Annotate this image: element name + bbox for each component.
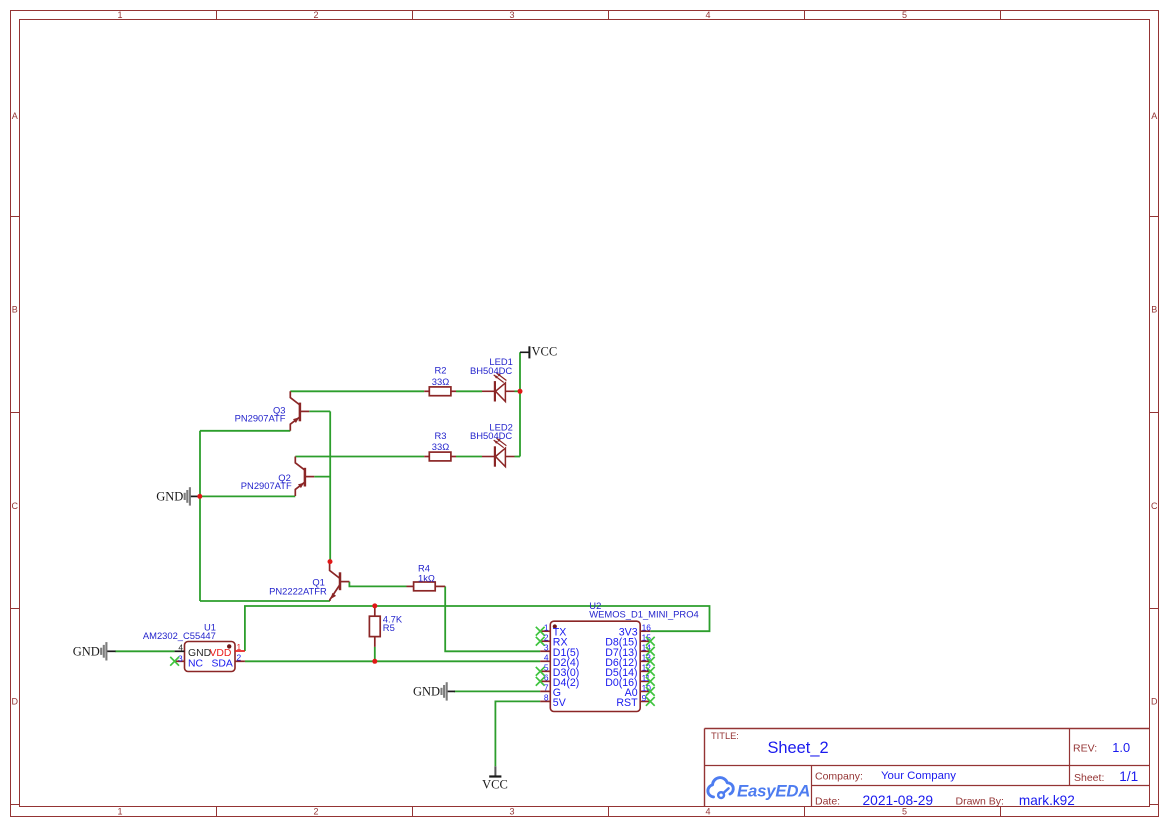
U1 pin1 polarity dot — [227, 644, 231, 648]
svg-text:TITLE:: TITLE: — [711, 731, 739, 741]
svg-text:C: C — [11, 501, 18, 511]
svg-text:R5: R5 — [383, 622, 395, 633]
U2 pin 13 no-connect X — [646, 657, 655, 666]
U2 pin 3 D1(5) stub — [540, 650, 550, 652]
svg-text:3: 3 — [544, 642, 549, 652]
LED LED1 — [482, 390, 495, 392]
wire base bus vertical Q3/Q2 to Q1 collector — [329, 411, 331, 561]
ground flag GND1 at transistor rail — [189, 487, 191, 505]
svg-text:A: A — [12, 111, 18, 121]
U2 pin 16 3V3 stub — [640, 630, 650, 632]
svg-text:4: 4 — [705, 806, 710, 816]
U1 pin 3 no-connect X — [170, 657, 179, 666]
svg-text:D: D — [1151, 697, 1158, 707]
U1 pin 3 NC stub — [175, 660, 185, 662]
junction GND rail — [197, 494, 202, 499]
svg-text:Drawn By:: Drawn By: — [956, 796, 1004, 808]
svg-text:SDA: SDA — [212, 658, 233, 669]
U2 pin 10 A0 stub — [640, 690, 650, 692]
svg-text:NC: NC — [188, 658, 204, 669]
U2 pin 13 D6(12) stub — [640, 660, 650, 662]
svg-text:1kΩ: 1kΩ — [418, 573, 435, 584]
transistor Q1 NPN — [339, 572, 342, 590]
EasyEDA logo — [708, 778, 733, 798]
svg-text:8: 8 — [544, 693, 549, 703]
svg-text:VCC: VCC — [482, 778, 508, 792]
wire LED1 to VCC node — [515, 390, 521, 392]
svg-text:PN2907ATF: PN2907ATF — [235, 412, 286, 423]
svg-text:33Ω: 33Ω — [432, 441, 449, 452]
svg-text:D: D — [11, 697, 18, 707]
wire Q3 collector to R2 — [290, 390, 424, 392]
svg-text:Date:: Date: — [815, 796, 840, 808]
U2 pin 5 D3(0) stub — [540, 670, 550, 672]
svg-text:mark.k92: mark.k92 — [1019, 793, 1075, 808]
svg-text:Company:: Company: — [815, 771, 863, 783]
U2 pin 1 no-connect X — [536, 627, 545, 636]
wire Q3 emitter to GND rail — [200, 430, 290, 432]
wire GND to U2 pin7 G — [454, 690, 540, 692]
svg-text:Sheet_2: Sheet_2 — [768, 739, 829, 757]
U2 pin 11 no-connect X — [646, 677, 655, 686]
resistor R5 vertical — [374, 606, 376, 616]
junction LED1/VCC — [518, 389, 523, 394]
U2 pin 15 no-connect X — [646, 637, 655, 646]
junction R5 top / VDD rail — [372, 603, 377, 608]
wire Q2 collector to R3 — [295, 456, 424, 458]
svg-text:R2: R2 — [435, 365, 447, 376]
U1 pin 1 VDD stub — [235, 650, 245, 652]
wire VDD net: U1 pin1 up to 3V3/R5 rail — [245, 606, 710, 651]
wire R5 bottom to SDA net — [374, 647, 376, 661]
resistor R3 — [424, 456, 429, 458]
wire VCC vertical — [519, 352, 521, 456]
U2 pin 7 G stub — [540, 690, 550, 692]
svg-text:R3: R3 — [435, 430, 447, 441]
wire LED2 to VCC node — [515, 456, 521, 458]
wire R2 to LED1 — [456, 390, 482, 392]
VCC net flag top — [520, 351, 529, 353]
wire Q2 base to bus — [314, 476, 330, 478]
svg-text:PN2222ATFR: PN2222ATFR — [269, 585, 327, 596]
IC U1 AM2302 body — [185, 642, 236, 672]
wire Q2 emitter to GND rail — [200, 495, 295, 497]
resistor R2 — [424, 390, 429, 392]
svg-text:RST: RST — [616, 697, 638, 709]
U2 pin 14 D7(13) stub — [640, 650, 650, 652]
svg-text:BH504DC: BH504DC — [470, 430, 512, 441]
U2 pin 12 no-connect X — [646, 667, 655, 676]
U1 pin 2 SDA stub — [235, 660, 245, 662]
svg-text:Sheet:: Sheet: — [1074, 772, 1104, 784]
LED LED2 — [482, 456, 495, 458]
svg-text:1: 1 — [237, 642, 242, 652]
svg-text:2: 2 — [237, 653, 242, 663]
U1 pin 4 GND stub — [175, 650, 185, 652]
wire Q3 base to bus — [309, 410, 330, 412]
svg-text:WEMOS_D1_MINI_PRO4: WEMOS_D1_MINI_PRO4 — [589, 609, 698, 620]
svg-text:EasyEDA: EasyEDA — [737, 781, 810, 800]
svg-text:4: 4 — [544, 652, 549, 662]
U2 pin 8 5V stub — [540, 700, 550, 702]
svg-text:2: 2 — [313, 10, 318, 20]
U2 pin 6 D4(2) stub — [540, 680, 550, 682]
U2 pin1 dot — [553, 624, 557, 628]
svg-text:C: C — [1151, 501, 1158, 511]
wire R3 to LED2 — [456, 456, 482, 458]
svg-text:B: B — [12, 305, 18, 315]
svg-text:5V: 5V — [553, 697, 567, 709]
wire GND to U1 pin4 — [115, 650, 174, 652]
svg-text:PN2907ATF: PN2907ATF — [241, 480, 292, 491]
ground flag GND3 at U2 pin7 — [446, 682, 448, 700]
svg-text:2021-08-29: 2021-08-29 — [863, 793, 934, 808]
svg-text:2: 2 — [313, 806, 318, 816]
svg-text:GND: GND — [73, 644, 100, 658]
svg-text:VCC: VCC — [532, 344, 558, 358]
U2 pin 5 no-connect X — [536, 667, 545, 676]
svg-text:3: 3 — [509, 806, 514, 816]
svg-text:REV:: REV: — [1073, 742, 1097, 754]
wire Q1 emitter to GND rail — [200, 600, 330, 602]
U2 pin 9 no-connect X — [646, 697, 655, 706]
title block — [705, 729, 1150, 807]
svg-text:1: 1 — [117, 806, 122, 816]
svg-text:16: 16 — [642, 623, 652, 633]
U2 pin 12 D5(14) stub — [640, 670, 650, 672]
U2 pin 14 no-connect X — [646, 647, 655, 656]
IC U2 WEMOS_D1_MINI_PRO4 body — [550, 621, 640, 711]
wire Q1 base jog — [349, 582, 406, 587]
U2 pin 6 no-connect X — [536, 677, 545, 686]
svg-text:4: 4 — [178, 643, 183, 653]
svg-text:33Ω: 33Ω — [432, 376, 449, 387]
ground flag GND2 at U1 pin4 — [105, 642, 107, 660]
U2 pin 1 TX stub — [540, 630, 550, 632]
svg-text:B: B — [1151, 305, 1157, 315]
svg-text:Your Company: Your Company — [881, 770, 956, 782]
resistor R4 — [407, 585, 414, 587]
U2 pin 4 D2(4) stub — [540, 660, 550, 662]
svg-text:BH504DC: BH504DC — [470, 365, 512, 376]
junction Q1 collector / base bus — [328, 559, 333, 564]
wire SDA net: U1 pin2 to U2 pin4 D2(4) — [245, 660, 540, 662]
VCC net flag bottom — [494, 766, 496, 776]
svg-text:AM2302_C55447: AM2302_C55447 — [143, 630, 216, 641]
transistor Q2 PNP — [304, 468, 307, 487]
svg-text:3: 3 — [178, 654, 183, 664]
svg-text:GND: GND — [413, 684, 440, 698]
U2 pin 2 RX stub — [540, 640, 550, 642]
U2 pin 15 D8(15) stub — [640, 640, 650, 642]
wire GND rail vertical — [199, 431, 201, 601]
junction R5 bottom / SDA net — [372, 659, 377, 664]
svg-text:A: A — [1151, 111, 1157, 121]
svg-text:1/1: 1/1 — [1119, 769, 1138, 784]
svg-text:7: 7 — [544, 682, 549, 692]
U2 pin 2 no-connect X — [536, 637, 545, 646]
U2 pin 11 D0(16) stub — [640, 680, 650, 682]
svg-text:4: 4 — [705, 10, 710, 20]
wire U2 pin8 5V to VCC flag — [495, 701, 540, 766]
U2 pin 10 no-connect X — [646, 687, 655, 696]
svg-text:1: 1 — [117, 10, 122, 20]
transistor Q3 PNP — [299, 403, 302, 422]
svg-text:GND: GND — [156, 489, 183, 503]
svg-text:1.0: 1.0 — [1112, 740, 1130, 755]
svg-text:3: 3 — [509, 10, 514, 20]
U2 pin 9 RST stub — [640, 700, 650, 702]
svg-text:5: 5 — [902, 10, 907, 20]
wire R4 to U2 pin3 D1(5) — [445, 586, 540, 651]
